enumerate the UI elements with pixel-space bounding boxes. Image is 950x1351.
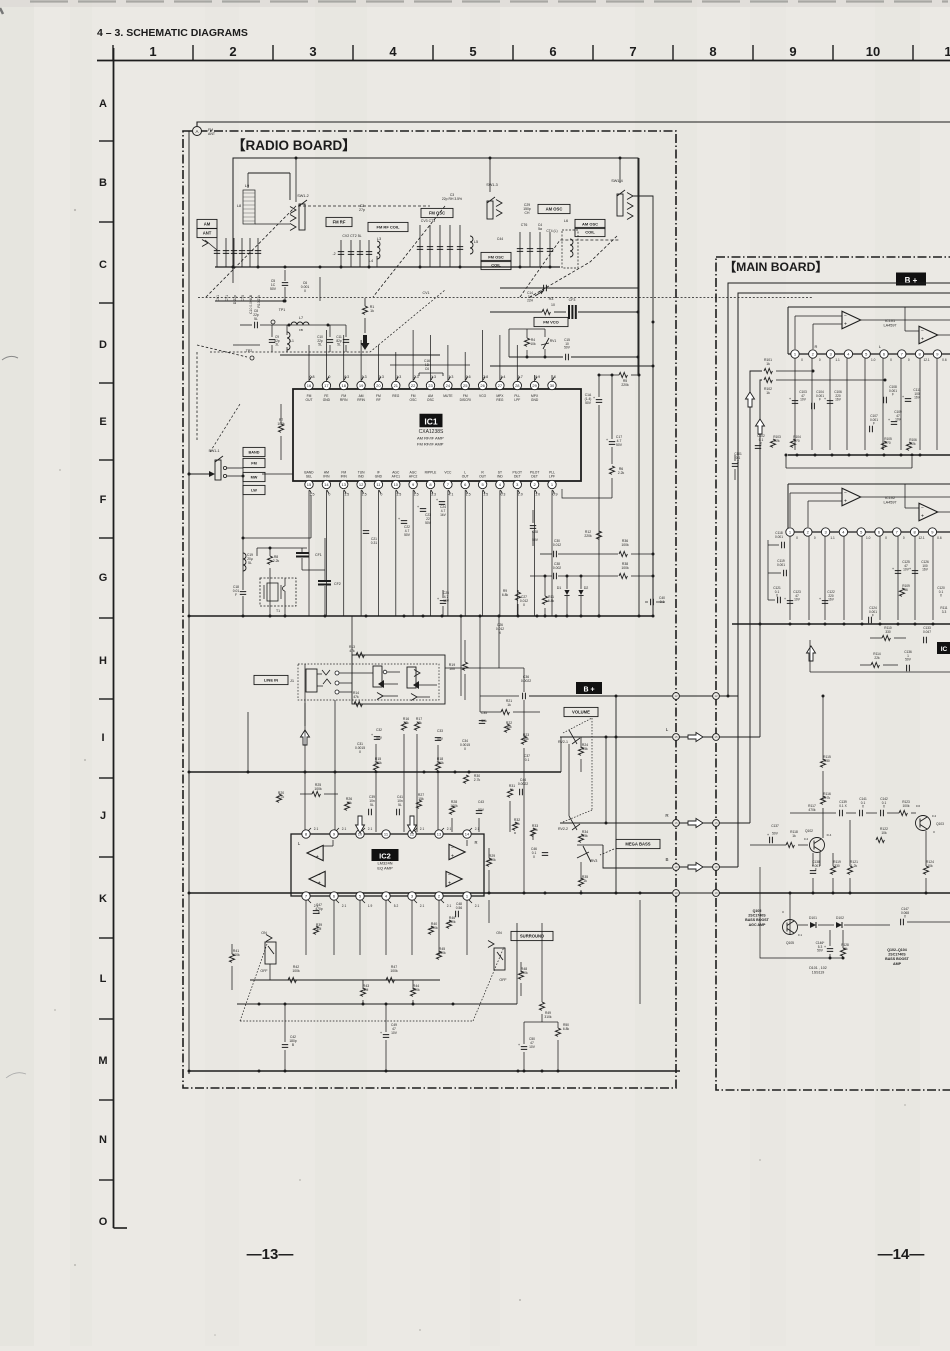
svg-text:C44: C44 [497, 237, 503, 241]
svg-text:16: 16 [307, 383, 312, 388]
svg-text:0: 0 [801, 358, 803, 362]
svg-text:0.0022: 0.0022 [521, 679, 531, 683]
svg-text:6.8k: 6.8k [502, 593, 509, 597]
svg-text:5L: 5L [370, 803, 374, 807]
svg-text:C33: C33 [437, 729, 443, 733]
svg-text:30: 30 [550, 383, 555, 388]
svg-text:6: 6 [549, 44, 556, 59]
svg-text:50V: 50V [905, 658, 912, 662]
svg-text:16V: 16V [828, 598, 835, 602]
svg-text:22p RH 3.5%: 22p RH 3.5% [442, 197, 462, 201]
svg-text:1: 1 [149, 44, 156, 59]
svg-text:IC1: IC1 [424, 417, 438, 427]
svg-text:−: − [921, 506, 924, 512]
svg-text:RV2-1: RV2-1 [558, 740, 568, 744]
svg-text:21: 21 [394, 383, 399, 388]
svg-text:1.5: 1.5 [344, 493, 349, 497]
svg-text:IFIN: IFIN [323, 475, 330, 479]
svg-text:12: 12 [674, 694, 678, 698]
svg-text:CH: CH [525, 211, 530, 215]
svg-text:L4: L4 [369, 259, 373, 263]
svg-text:50V: 50V [772, 832, 779, 836]
svg-text:1.5: 1.5 [310, 493, 315, 497]
svg-text:CT1: CT1 [225, 295, 229, 302]
svg-text:50V: 50V [404, 533, 411, 537]
svg-text:Q103: Q103 [936, 822, 944, 826]
svg-text:CV1: CV1 [423, 291, 430, 295]
svg-text:2.1: 2.1 [420, 904, 425, 908]
svg-text:L3: L3 [377, 237, 381, 241]
svg-text:0.001: 0.001 [775, 535, 783, 539]
svg-text:15: 15 [307, 482, 312, 487]
svg-text:-2: -2 [332, 252, 335, 256]
svg-text:+: + [448, 881, 451, 887]
svg-text:VOLUME: VOLUME [572, 710, 590, 715]
svg-text:100k: 100k [903, 804, 910, 808]
svg-text:FB: FB [299, 328, 303, 332]
svg-text:0.012: 0.012 [553, 543, 561, 547]
svg-text:1kV: 1kV [440, 513, 446, 517]
svg-text:SURROUND: SURROUND [520, 934, 544, 939]
svg-text:1k: 1k [766, 391, 770, 395]
svg-text:EQ AMP: EQ AMP [377, 866, 393, 871]
svg-text:LW: LW [251, 489, 257, 493]
svg-text:0: 0 [885, 536, 887, 540]
svg-text:FM RF/IF AMP: FM RF/IF AMP [417, 442, 444, 447]
svg-text:+: + [451, 854, 454, 860]
svg-text:MW: MW [251, 476, 258, 480]
svg-text:50V: 50V [478, 808, 485, 812]
svg-text:1k: 1k [766, 362, 770, 366]
svg-text:10k: 10k [881, 831, 887, 835]
svg-text:100k: 100k [621, 566, 629, 570]
svg-text:FM OSC: FM OSC [488, 255, 504, 260]
svg-text:2.1: 2.1 [447, 904, 452, 908]
svg-text:MEGA BASS: MEGA BASS [625, 842, 650, 847]
svg-text:F: F [235, 593, 237, 597]
svg-text:5L: 5L [248, 561, 252, 565]
svg-text:3.3: 3.3 [431, 493, 436, 497]
svg-text:1.5: 1.5 [396, 493, 401, 497]
svg-text:LPF: LPF [549, 475, 555, 479]
svg-text:CV3 CT3: CV3 CT3 [421, 219, 435, 223]
svg-text:10: 10 [551, 303, 555, 307]
svg-text:B +: B + [583, 686, 594, 693]
svg-text:10V: 10V [794, 598, 801, 602]
svg-text:0.0022: 0.0022 [518, 782, 528, 786]
svg-text:+: + [844, 499, 847, 505]
svg-text:16: 16 [674, 821, 678, 825]
svg-text:GND: GND [531, 398, 539, 402]
svg-text:L: L [100, 973, 107, 985]
svg-text:100k: 100k [621, 543, 629, 547]
svg-text:4 – 3. SCHEMATIC DIAGRAMS: 4 – 3. SCHEMATIC DIAGRAMS [97, 27, 248, 39]
svg-text:1k: 1k [370, 309, 374, 313]
svg-text:AMP: AMP [893, 962, 902, 966]
svg-text:0.001: 0.001 [777, 563, 785, 567]
svg-text:R: R [474, 840, 477, 845]
svg-text:2.1: 2.1 [314, 827, 319, 831]
svg-text:CT6: CT6 [521, 223, 528, 227]
svg-text:9: 9 [789, 44, 796, 59]
svg-text:FM OSC: FM OSC [429, 211, 445, 216]
svg-text:12: 12 [359, 482, 364, 487]
svg-text:BASS BOOST: BASS BOOST [745, 918, 770, 922]
svg-text:C35: C35 [481, 711, 487, 715]
svg-text:RV1: RV1 [550, 339, 557, 343]
svg-text:CT4 (L): CT4 (L) [546, 229, 557, 233]
svg-text:AM OSC: AM OSC [582, 222, 598, 227]
svg-text:R3: R3 [549, 297, 554, 301]
svg-text:1k: 1k [792, 834, 796, 838]
svg-text:0: 0 [814, 536, 816, 540]
svg-text:8: 8 [709, 44, 716, 59]
svg-text:L9: L9 [245, 183, 250, 188]
svg-text:CF3: CF3 [569, 298, 576, 302]
svg-text:50V: 50V [616, 443, 623, 447]
svg-text:1.0: 1.0 [866, 536, 871, 540]
svg-text:56: 56 [904, 588, 908, 592]
svg-text:12.1: 12.1 [923, 358, 929, 362]
svg-text:−: − [451, 846, 454, 852]
svg-text:0.1 X: 0.1 X [839, 804, 847, 808]
svg-text:5a: 5a [538, 227, 542, 231]
svg-text:A: A [99, 98, 107, 110]
svg-text:RIPPLE: RIPPLE [425, 471, 438, 475]
svg-text:Q102: Q102 [805, 829, 813, 833]
svg-text:COIL: COIL [585, 230, 595, 235]
svg-text:1.1: 1.1 [830, 536, 835, 540]
svg-text:Q102–Q104: Q102–Q104 [887, 948, 907, 952]
svg-text:RF: RF [376, 398, 380, 402]
svg-text:0.4: 0.4 [932, 814, 937, 818]
svg-text:5L: 5L [337, 343, 341, 347]
svg-text:L8: L8 [237, 204, 241, 208]
svg-text:0.002: 0.002 [553, 566, 561, 570]
svg-text:2: 2 [229, 44, 236, 59]
svg-text:2.1: 2.1 [475, 904, 480, 908]
svg-text:RFIN: RFIN [340, 398, 348, 402]
svg-text:CV2 CT2 5L: CV2 CT2 5L [342, 234, 361, 238]
svg-text:N: N [99, 1134, 107, 1146]
svg-text:2SC1740S: 2SC1740S [888, 953, 906, 957]
svg-text:E: E [99, 416, 106, 428]
svg-text:29: 29 [532, 383, 537, 388]
svg-text:I: I [101, 732, 104, 744]
svg-text:5: 5 [469, 44, 476, 59]
svg-text:100k: 100k [390, 969, 398, 973]
svg-text:1.5: 1.5 [362, 493, 367, 497]
svg-text:DET: DET [531, 475, 538, 479]
svg-text:CF1: CF1 [315, 553, 322, 557]
svg-text:10V: 10V [391, 1031, 398, 1035]
svg-text:OSC: OSC [410, 398, 418, 402]
svg-text:0.6: 0.6 [942, 358, 947, 362]
svg-text:100k: 100k [292, 969, 300, 973]
svg-text:CXA1238S: CXA1238S [419, 429, 444, 435]
svg-text:D: D [99, 339, 107, 351]
svg-text:22k: 22k [874, 656, 880, 660]
svg-text:1.5: 1.5 [483, 493, 488, 497]
svg-text:SEL: SEL [306, 475, 312, 479]
svg-text:100k: 100k [314, 787, 322, 791]
svg-text:10: 10 [866, 44, 880, 59]
svg-text:0.1: 0.1 [798, 933, 803, 937]
svg-text:ON: ON [496, 931, 502, 935]
svg-text:0: 0 [796, 536, 798, 540]
svg-text:10k: 10k [530, 342, 536, 346]
svg-text:1.0: 1.0 [871, 358, 876, 362]
svg-text:F: F [892, 393, 894, 397]
svg-text:−: − [448, 873, 451, 879]
svg-text:3.3: 3.3 [942, 610, 947, 614]
svg-text:0.4: 0.4 [804, 837, 809, 841]
svg-text:FM VCO: FM VCO [543, 320, 559, 325]
svg-text:2.1: 2.1 [420, 827, 425, 831]
svg-text:10V: 10V [800, 398, 807, 402]
svg-text:L5: L5 [474, 240, 478, 244]
svg-text:—14—: —14— [878, 1246, 925, 1263]
svg-text:【RADIO BOARD】: 【RADIO BOARD】 [232, 138, 356, 153]
svg-text:VCC: VCC [444, 471, 452, 475]
svg-text:24: 24 [446, 383, 451, 388]
svg-text:J: J [100, 810, 106, 822]
svg-text:−: − [844, 314, 847, 320]
svg-text:14: 14 [465, 832, 470, 837]
svg-text:16V: 16V [922, 568, 929, 572]
svg-text:L1: L1 [290, 339, 294, 343]
svg-text:C32: C32 [376, 728, 382, 732]
svg-text:1k: 1k [507, 703, 511, 707]
svg-text:0.31: 0.31 [371, 541, 378, 545]
svg-text:D102: D102 [836, 916, 844, 920]
svg-text:K: K [99, 893, 107, 905]
svg-text:B: B [99, 177, 107, 189]
svg-text:10V: 10V [529, 1045, 536, 1049]
svg-text:13: 13 [341, 482, 346, 487]
svg-text:IND: IND [358, 475, 364, 479]
svg-text:13: 13 [437, 832, 442, 837]
svg-text:CT5: CT5 [241, 295, 245, 302]
svg-text:1.0: 1.0 [518, 493, 523, 497]
svg-text:2.1: 2.1 [342, 904, 347, 908]
svg-text:26: 26 [480, 383, 485, 388]
svg-text:DISCRI: DISCRI [460, 398, 471, 402]
svg-text:SW1-1: SW1-1 [209, 449, 220, 453]
svg-text:REG: REG [392, 394, 400, 398]
svg-text:F: F [819, 398, 821, 402]
svg-text:AM RF/IF AMP: AM RF/IF AMP [417, 436, 444, 441]
svg-text:AFC2: AFC2 [409, 475, 418, 479]
svg-text:D101: D101 [809, 916, 817, 920]
svg-text:0.3: 0.3 [500, 493, 505, 497]
svg-text:L6: L6 [564, 219, 568, 223]
svg-text:22: 22 [411, 383, 416, 388]
svg-text:SW1-2: SW1-2 [297, 194, 309, 198]
svg-text:ANT: ANT [203, 231, 212, 236]
svg-text:0.6: 0.6 [937, 536, 942, 540]
svg-text:RV3: RV3 [591, 859, 598, 863]
svg-text:0: 0 [890, 358, 892, 362]
svg-text:310k: 310k [544, 1015, 552, 1019]
svg-text:AGC AMP: AGC AMP [749, 923, 766, 927]
svg-text:2.1: 2.1 [447, 827, 452, 831]
svg-text:23: 23 [428, 383, 433, 388]
svg-text:A: A [195, 129, 198, 134]
svg-text:19: 19 [359, 383, 364, 388]
svg-text:OSC: OSC [427, 398, 435, 402]
svg-text:18: 18 [714, 865, 718, 869]
svg-text:3: 3 [309, 44, 316, 59]
svg-text:M: M [98, 1055, 107, 1067]
svg-text:C43: C43 [478, 800, 484, 804]
svg-text:20: 20 [376, 383, 381, 388]
svg-text:F: F [873, 422, 875, 426]
svg-text:50V: 50V [585, 401, 592, 405]
svg-text:D1: D1 [557, 586, 562, 590]
svg-text:27p: 27p [359, 208, 365, 212]
svg-text:330: 330 [885, 630, 891, 634]
svg-text:TP2: TP2 [246, 349, 253, 353]
svg-text:50V: 50V [270, 287, 277, 291]
svg-text:—13—: —13— [247, 1246, 294, 1263]
svg-text:SW1-3: SW1-3 [486, 183, 498, 187]
svg-text:B: B [665, 857, 668, 862]
svg-text:0: 0 [908, 358, 910, 362]
svg-text:19: 19 [714, 891, 718, 895]
svg-text:6.8k: 6.8k [563, 1027, 570, 1031]
svg-text:D 22p: D 22p [233, 295, 237, 304]
svg-text:0.047: 0.047 [923, 630, 931, 634]
svg-text:SW1-4: SW1-4 [611, 179, 623, 183]
svg-text:F: F [100, 494, 107, 506]
svg-text:D.4: D.4 [827, 833, 832, 837]
svg-text:【MAIN BOARD】: 【MAIN BOARD】 [724, 259, 828, 274]
svg-text:C137: C137 [771, 824, 779, 828]
svg-text:4: 4 [389, 44, 397, 59]
svg-text:O: O [99, 1216, 108, 1228]
svg-text:B +: B + [905, 276, 918, 285]
svg-text:D2: D2 [584, 586, 589, 590]
svg-text:18: 18 [341, 383, 346, 388]
svg-text:1: 1 [944, 44, 950, 59]
svg-text:12: 12 [714, 694, 718, 698]
svg-text:0.6: 0.6 [916, 804, 921, 808]
svg-text:1.5: 1.5 [466, 493, 471, 497]
svg-text:2.2k: 2.2k [273, 559, 280, 563]
svg-text:50V: 50V [817, 949, 824, 953]
svg-text:BASS BOOST: BASS BOOST [885, 957, 910, 961]
svg-text:VCO: VCO [479, 394, 487, 398]
svg-text:−: − [921, 329, 924, 335]
svg-text:L7: L7 [299, 316, 303, 320]
svg-text:OUT: OUT [479, 475, 486, 479]
svg-text:C6: C6 [425, 367, 429, 371]
svg-text:BAND: BAND [249, 451, 260, 455]
svg-text:REG: REG [496, 398, 504, 402]
svg-text:2.2k: 2.2k [618, 471, 625, 475]
svg-text:10: 10 [394, 482, 399, 487]
svg-text:OFF: OFF [260, 969, 268, 973]
svg-text:G: G [99, 572, 108, 584]
svg-text:IC: IC [941, 646, 948, 653]
svg-text:6.8k: 6.8k [548, 599, 555, 603]
svg-text:+: + [921, 337, 924, 343]
svg-text:LINE IN: LINE IN [264, 678, 278, 683]
svg-text:7: 7 [629, 44, 636, 59]
svg-text:GND: GND [375, 475, 383, 479]
svg-text:RFIN: RFIN [357, 398, 365, 402]
svg-text:0.1: 0.1 [525, 758, 530, 762]
svg-text:16V: 16V [835, 398, 842, 402]
svg-text:18: 18 [674, 865, 678, 869]
svg-text:FM RF COIL: FM RF COIL [377, 225, 400, 230]
svg-text:+: + [318, 881, 321, 887]
svg-text:2SC1740S: 2SC1740S [748, 914, 766, 918]
svg-text:LPF: LPF [514, 398, 520, 402]
svg-text:50V: 50V [564, 346, 571, 350]
svg-text:FM RF: FM RF [333, 220, 346, 225]
svg-text:LA4597: LA4597 [883, 324, 896, 328]
svg-text:C: C [99, 259, 107, 271]
svg-text:3L: 3L [275, 343, 279, 347]
svg-text:4.1: 4.1 [448, 493, 453, 497]
svg-text:+: + [316, 855, 319, 861]
svg-text:+: + [844, 322, 847, 328]
svg-text:GND: GND [323, 398, 331, 402]
svg-text:−: − [844, 491, 847, 497]
svg-text:0: 0 [903, 536, 905, 540]
svg-text:1.1: 1.1 [835, 358, 840, 362]
svg-text:D101 , 102: D101 , 102 [809, 966, 827, 970]
svg-text:DET: DET [514, 475, 521, 479]
svg-text:T1: T1 [276, 609, 280, 613]
svg-text:47k: 47k [353, 695, 359, 699]
svg-text:2.7k: 2.7k [474, 778, 481, 782]
svg-text:0: 0 [819, 358, 821, 362]
svg-text:+: + [921, 514, 924, 520]
svg-text:AFC1: AFC1 [392, 475, 401, 479]
svg-text:CF2: CF2 [334, 582, 341, 586]
svg-text:1.0: 1.0 [535, 493, 540, 497]
svg-text:16: 16 [714, 821, 718, 825]
svg-text:220k: 220k [584, 534, 592, 538]
svg-text:15: 15 [674, 735, 678, 739]
svg-text:−: − [318, 873, 321, 879]
svg-text:OUT: OUT [306, 398, 313, 402]
svg-text:−: − [316, 847, 319, 853]
svg-text:0.9: 0.9 [553, 493, 558, 497]
svg-text:14: 14 [324, 482, 329, 487]
svg-text:FM: FM [251, 462, 256, 466]
svg-text:MUTE: MUTE [443, 394, 453, 398]
svg-text:OFF: OFF [499, 978, 507, 982]
svg-text:F: F [872, 614, 874, 618]
svg-text:12.1: 12.1 [918, 536, 924, 540]
svg-text:TP1: TP1 [279, 308, 286, 312]
svg-text:RV2-2: RV2-2 [558, 827, 568, 831]
svg-text:0.56: 0.56 [456, 906, 463, 910]
svg-text:25: 25 [463, 383, 468, 388]
svg-text:H: H [99, 655, 107, 667]
svg-text:2.1: 2.1 [342, 827, 347, 831]
svg-text:2.1: 2.1 [475, 827, 480, 831]
svg-text:27: 27 [498, 383, 503, 388]
svg-text:5L: 5L [318, 343, 322, 347]
svg-text:19: 19 [674, 891, 678, 895]
svg-text:AM OSC: AM OSC [546, 207, 563, 212]
svg-text:15: 15 [714, 735, 718, 739]
